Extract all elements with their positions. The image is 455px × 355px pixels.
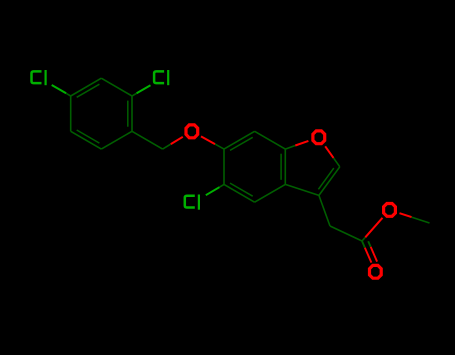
- bond C5-Cl (benzofuran chloro): [219, 184, 224, 187]
- bond O-C6 ether: [215, 144, 224, 149]
- bond O-CH3 methyl: [412, 217, 430, 223]
- wire: ring 1 edge C5-C4: [70, 96, 72, 131]
- wire: ring 1 edge C2-C1: [131, 96, 133, 131]
- bond C=O carbonyl double: [362, 241, 365, 248]
- wire: benzofuran ring edge C6-C7: [224, 131, 255, 149]
- atom label Cl (benzofuran 5-chloro): [185, 195, 199, 210]
- bond C-O ester single: [362, 237, 365, 241]
- wire: bond C3-CH2 acetate arm: [319, 195, 330, 226]
- atom label O (benzyl ether oxygen): [186, 125, 198, 138]
- atom label Cl (2-chloro of dichlorophenyl): [154, 70, 168, 85]
- wire: furan edge C3-C3a: [285, 184, 319, 195]
- wire: ring 1 edge C3-C2: [101, 78, 132, 96]
- atom label O (carbonyl oxygen): [370, 265, 382, 278]
- atom label O (ester oxygen): [384, 204, 396, 217]
- bond O1-C2 furan: [334, 158, 340, 167]
- wire: benzofuran edge C3a-C4: [255, 184, 286, 202]
- wire: ring 1 edge C6-C5: [71, 131, 102, 149]
- bond C2-Cl (chlorine substituent): [132, 93, 137, 96]
- bond CH2-O ether: [163, 144, 171, 149]
- atom label Cl (4-chloro of dichlorophenyl): [32, 70, 46, 85]
- wire: furan edge C2-C3: [319, 167, 340, 196]
- wire: benzene ring 1 (2,4-dichlorophenyl) edge C3-C4: [71, 78, 102, 96]
- bond C4-Cl (chlorine substituent): [66, 93, 71, 96]
- atom label O (furan ring oxygen O1): [313, 131, 325, 144]
- wire: benzofuran edge C7-C7a: [255, 131, 286, 149]
- wire: benzofuran edge C5-C6: [223, 149, 225, 184]
- bond C7a-O1 furan: [285, 146, 295, 150]
- wire: benzofuran edge C7a-C3a: [284, 149, 286, 184]
- wire: ring 1 edge C1-C6: [101, 131, 132, 149]
- wire: bond CH2-C carbonyl: [330, 226, 362, 241]
- wire: benzylic bond C1-CH2: [132, 131, 163, 149]
- wire: benzofuran edge C4-C5: [224, 184, 255, 202]
